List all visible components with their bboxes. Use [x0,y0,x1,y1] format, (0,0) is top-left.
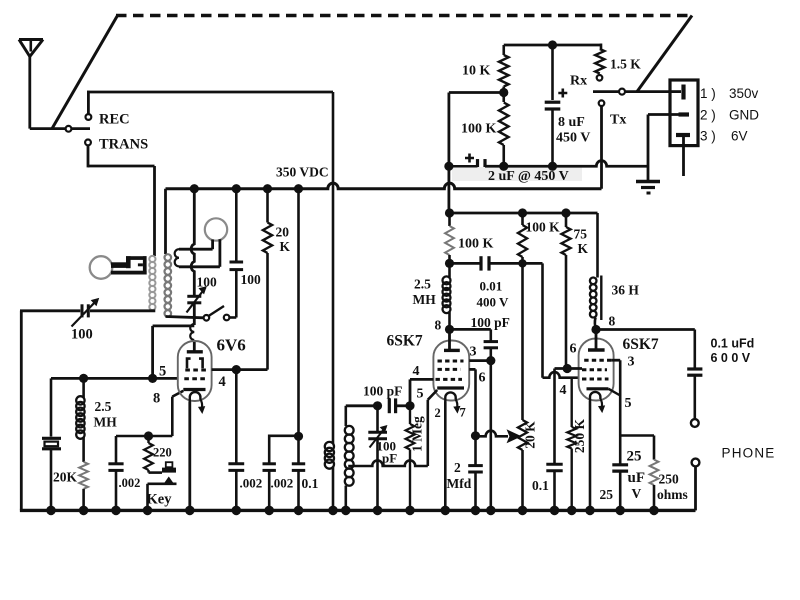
svg-text:8: 8 [609,314,616,329]
REC contact terminal [86,114,92,120]
node bus 490.8 [486,506,496,516]
wire B+ bus with hops [166,183,602,189]
wire cathode network [620,434,654,437]
svg-text:3: 3 [628,355,635,370]
wire 0.01 right lead [489,262,523,265]
svg-text:5: 5 [625,396,632,411]
node B+ second rail [445,208,454,217]
svg-text:0.1: 0.1 [532,478,549,493]
svg-text:2 uF @ 450 V: 2 uF @ 450 V [488,169,569,184]
svg-text:2: 2 [454,460,461,475]
svg-text:5: 5 [417,387,424,402]
Tx contact terminal [599,100,605,106]
6SK7-2 grid row 2 [582,368,607,371]
variable capacitor 100 antenna arrow [72,300,98,327]
svg-text:1.5 K: 1.5 K [610,57,641,72]
choke 36H [590,278,597,285]
wire pin6 6SK7-2 [555,367,583,370]
node bus 147.5 [143,506,153,516]
capacitor .002 key top lead [115,436,118,463]
wire TRANS to tank coil [153,166,156,256]
svg-text:4: 4 [413,364,420,379]
node 10K-100K junction [499,88,508,97]
transformer winding left [149,256,155,262]
6SK7-1 grid row 1 [438,360,464,363]
node bus 410 [405,506,415,516]
wire key to bus [146,484,149,511]
wire pin2 gnd [647,115,650,182]
node volume wiper [471,431,480,440]
wire choke to grid cap node [448,312,451,329]
node plate RC junction [445,259,454,268]
wire 0.1 column [297,189,300,437]
capacitor 25uF lead [619,436,622,464]
svg-text:Tx: Tx [610,113,626,128]
node B+ grid column [190,184,199,193]
chassis ground symbol [636,180,660,183]
svg-text:75: 75 [574,227,588,242]
choke 36H lead [596,213,599,278]
svg-text:4: 4 [219,374,226,390]
antenna switch pole terminal [66,126,72,132]
lamp wire lower [179,265,220,268]
resistor 250 ohms [650,460,659,485]
6SK7-2 top cap bar [588,348,605,351]
svg-text:350v: 350v [729,86,759,101]
node 2uF left [444,162,453,171]
node B+ 100pf column [232,184,241,193]
6SK7-2 grid row 3 [582,378,609,381]
svg-text:pF: pF [382,451,397,466]
node grid varcap rx [373,401,382,410]
svg-text:2.5: 2.5 [95,399,112,414]
wire filter column lower crossing bus [447,166,450,213]
wire 6SK7-2 heater to bus [589,401,592,510]
wire 20K to bus [82,489,85,511]
wire B+ top rail [504,44,601,47]
svg-text:36 H: 36 H [612,283,640,298]
svg-text:6: 6 [479,371,486,386]
wire cathode to junction [149,435,173,438]
lamp left lead [211,240,214,250]
wire TRANS down [87,145,90,167]
node bus 269.2 [264,506,274,516]
grid line from B+ with crossover hops [191,189,194,296]
capacitor .002 key [108,462,123,465]
wire 2uF left lead [449,165,478,168]
tube 6V6 envelope [178,341,212,401]
tank switch arm [209,306,225,316]
capacitor .002 screen A [228,462,244,465]
node 75K top [561,208,570,217]
resistor 10K [502,45,505,55]
wire phone lower to bus [694,466,697,510]
wire Tx down to B+ bus [600,106,603,189]
node cathode key junction [144,431,153,440]
node 1Meg top [405,401,414,410]
svg-text:2: 2 [435,406,441,420]
indicator lamp [205,218,227,240]
node 6SK7-1 top cap [445,325,454,334]
6V6 beam plates [187,359,191,369]
lamp right lead [218,239,221,267]
node bus 236.3 [232,506,242,516]
svg-text:2.5: 2.5 [414,277,431,292]
svg-text:Key: Key [147,492,173,508]
key contact bar [162,468,176,473]
node bus 654 [649,506,659,516]
lamp wire upper [179,248,213,251]
resistor 250K [571,378,573,427]
Rx contact terminal [597,75,603,81]
wire pin8 to 100pF [450,328,491,331]
lamp link coil loops [175,249,179,266]
svg-text:Rx: Rx [570,74,587,89]
connector block outline [670,80,698,146]
wire feedback branch [151,326,154,379]
capacitor .002 B top [269,436,298,463]
choke 2.5MH plate lead top [448,213,451,226]
rx tuned coil secondary [345,426,354,435]
node choke top [79,374,88,383]
node B+ 0.1 column [294,184,303,193]
node B+ screen 20K [263,184,272,193]
capacitor .002 key bottom lead [115,470,118,510]
wire filter column upper [447,93,450,167]
mechanical linkage diagonal left [52,16,118,129]
node bus 620.2 [615,506,625,516]
resistor 20K cathode [79,462,88,489]
svg-text:400 V: 400 V [477,295,510,310]
node bus 83.6 [79,506,89,516]
svg-text:100: 100 [241,272,262,287]
wire 6V6 screen pin4 [212,368,268,371]
wire .002A to bus [235,470,238,510]
variable capacitor 100 antenna [81,304,84,317]
capacitor 0.1uFd 600V [687,367,702,370]
capacitor .002 B [263,462,276,465]
svg-text:8: 8 [153,391,160,407]
capacitor 100 fixed lead top [235,189,238,261]
wire antenna tank left vertical [20,311,23,511]
svg-text:6V6: 6V6 [217,336,246,355]
6SK7-1 heater [445,392,455,401]
svg-text:PHONE: PHONE [722,446,776,461]
svg-text:8: 8 [435,318,442,333]
capacitor 0.01 400V [479,256,482,270]
wire .002B to bus [268,470,271,510]
svg-text:6SK7: 6SK7 [623,336,659,353]
wire REC up [87,91,90,115]
svg-text:ohms: ohms [657,487,688,502]
node pin6 75K [563,364,572,373]
wire 100K to node [448,255,451,263]
wire antenna varcap left [20,309,80,312]
resistor 100K audio [521,213,524,225]
grid squiggle loops [190,324,194,340]
capacitor 8uF 450V [545,101,561,104]
wire 100K audio rail [450,212,598,215]
svg-text:6 0 0 V: 6 0 0 V [711,351,751,365]
label 2uF [452,167,582,181]
6V6 grid row upper [185,369,208,372]
connector pin 2 [679,112,690,116]
crystal earphone [90,256,113,279]
6SK7-1 grid row 2 [438,368,461,371]
node 100K audio top [518,208,527,217]
mechanical linkage diagonal right [637,16,692,92]
variable capacitor 100pF rx arrow [370,427,387,448]
svg-text:K: K [578,241,589,256]
variable capacitor 100 grid [187,295,201,298]
svg-text:25: 25 [627,449,642,465]
choke 2.5MH cathode [76,396,84,404]
svg-text:100 K: 100 K [461,122,497,137]
wire output cap to terminal [693,375,696,419]
svg-text:100 K: 100 K [526,220,561,235]
svg-text:.002: .002 [271,476,294,491]
svg-text:.002: .002 [119,476,141,490]
svg-text:V: V [632,486,642,501]
wire right winding bottom to switch [166,317,204,318]
6SK7-2 heater arrow [600,399,602,407]
wire 6SK7-1 heater to bus [444,402,447,511]
node feedback [148,374,157,383]
6V6 plate bar [187,350,203,353]
wire antenna varcap right [90,309,155,312]
wire 250ohm to bus [653,485,656,510]
node 100K bottom [499,162,508,171]
variable capacitor 100pF rx [376,406,379,432]
6V6 cathode bar [183,388,205,391]
potentiometer 20K [521,263,524,420]
tube 6SK7-1 envelope [433,341,469,401]
resistor 1Meg [409,406,411,424]
plus sign 8uF [558,89,567,98]
svg-text:.002: .002 [240,476,263,491]
crystal Y1 [42,437,61,440]
wire antenna to switch pole [30,127,90,130]
svg-text:2 ): 2 ) [700,108,716,123]
transformer winding right [165,254,172,261]
wire 100pF to pin3 node [489,348,492,361]
wire junction to filter column [449,91,504,94]
wire secondary bottom to bus [344,486,347,511]
capacitor 100 fixed [230,261,244,264]
node 0.1 junction [294,432,303,441]
svg-text:100 K: 100 K [458,237,494,252]
wire ground rail [485,161,648,167]
node bus 189.8 [185,506,195,516]
node bus 333 [328,506,338,516]
wire 0.1B to bus [553,471,556,511]
earphone plug body [111,262,130,268]
node bus 554.5 [550,506,560,516]
capacitor 25uF [612,463,628,466]
svg-text:450 V: 450 V [556,131,590,146]
node bus 298.5 [294,506,304,516]
svg-text:8 uF: 8 uF [558,115,585,130]
svg-text:100 pF: 100 pF [363,384,402,399]
connector pin 1 [670,90,681,93]
svg-text:0.1: 0.1 [302,476,319,491]
svg-text:1 Meg: 1 Meg [410,416,425,452]
node pin4 bypass [232,365,241,374]
resistor 20K screen [266,189,269,223]
wire 25uF to bus [619,471,622,510]
node 8uF top [548,40,557,49]
capacitor 100pF feedback [484,340,498,343]
capacitor 8uF lead [551,45,554,100]
svg-text:250 K: 250 K [572,418,587,453]
node bus 345.8 [341,506,351,516]
wire 6V6 heater to bus [188,402,191,511]
svg-text:Mfd: Mfd [447,476,472,491]
svg-text:250: 250 [659,472,680,487]
node bus 377.5 [373,506,383,516]
svg-text:4: 4 [560,383,567,398]
wire 0.01 left lead [450,262,482,265]
resistor 1.5K [600,44,603,50]
node bus 51 [46,506,56,516]
svg-text:GND: GND [729,108,759,123]
svg-text:3: 3 [470,345,477,360]
capacitor 100 fixed lead bottom [235,270,238,318]
mechanical linkage dashed line [116,14,692,17]
node audio junction [518,259,526,267]
svg-text:25: 25 [600,487,614,502]
svg-text:100: 100 [71,327,93,343]
TR switch pole terminal [619,89,625,95]
svg-text:20: 20 [276,225,290,240]
svg-text:5: 5 [159,364,166,380]
key upper contact wire [147,470,149,473]
svg-text:350 VDC: 350 VDC [276,165,329,180]
tank switch right contact [224,315,230,321]
rx coupling coil primary [325,442,334,451]
node bus 445.3 [441,506,451,516]
tube 6SK7-2 envelope [579,339,614,401]
6V6 heater [190,392,201,402]
wire cathode to pin3 line [609,389,621,396]
wire pin4 bypass down [235,370,238,463]
svg-text:1 ): 1 ) [700,86,716,101]
variable capacitor 100 arrow [187,288,206,313]
choke 2.5MH plate [448,263,451,277]
svg-text:3 ): 3 ) [700,129,716,144]
wire pin3 6SK7-1 [469,359,491,362]
wire B+ bus left end down to tank coil [164,189,167,254]
node 8uF bottom [548,162,557,171]
svg-text:7: 7 [460,406,466,420]
wire pin5 cathode 6SK7-1 [428,390,437,400]
6SK7-1 heater arrow [456,400,458,408]
key arrow [164,478,173,484]
wire crystal top [50,378,53,436]
6SK7-2 cathode bar [587,387,609,390]
wire secondary top [344,406,347,426]
choke 2.5MH cathode lead [82,378,85,397]
wire antenna lead down [28,55,31,129]
resistor 75K [565,213,568,227]
svg-text:20K: 20K [53,470,78,485]
node bus 590 [585,506,595,516]
capacitor 0.1 A [292,462,305,465]
phone terminal upper [691,419,699,427]
wire pin6 6SK7-1 [469,368,475,371]
wire pin6 bypass [553,369,556,464]
svg-text:0.1 uFd: 0.1 uFd [711,337,755,351]
wire pin3 6SK7-2 [612,359,621,362]
TR switch arm wire [593,90,671,93]
connector pin 3 [676,133,690,137]
capacitor 2uF 450V [476,159,479,173]
svg-text:100 pF: 100 pF [471,315,510,330]
resistor 100K bleeder [499,103,509,146]
svg-text:MH: MH [413,292,437,307]
svg-text:6V: 6V [731,129,748,144]
6SK7-2 grid row 1 [584,359,611,362]
svg-text:220: 220 [153,446,172,460]
wire pin3 to bus [489,361,492,511]
TRANS contact terminal [85,140,91,146]
capacitor 8uF bottom lead [551,109,554,166]
node 6SK7-2 top cap [591,325,600,334]
node bus 116 [111,506,121,516]
svg-text:20 K: 20 K [523,421,538,449]
wire crystal bottom [50,449,53,511]
svg-text:uF: uF [628,470,646,486]
node bus 475.5 [471,506,481,516]
wire choke to 20K [82,438,85,462]
antenna symbol [19,38,43,41]
wire grid leak rail [51,377,178,380]
6SK7-1 cathode bar [437,386,464,389]
wire 100 cap to switch contact [229,316,236,319]
wire 0.1 top lead [297,436,300,463]
phone terminal lower [692,459,700,467]
node pin3 100pF [486,356,495,365]
wiper arrow [498,435,508,438]
6SK7-1 top cap bar [444,349,460,352]
svg-text:100: 100 [197,275,218,290]
wire squiggle to 6V6 plate [193,340,196,352]
wire TRANS horizontal [88,165,155,168]
wire pin4 6SK7-1 [410,378,433,381]
wiper wire with hop [476,431,499,437]
6V6 grid row lower [184,377,207,380]
svg-text:MH: MH [94,415,118,430]
key lower contact wire [148,482,177,485]
wire 100pF to 1Meg node [396,404,410,407]
wire REC to receiver input [87,91,333,94]
6SK7-1 grid row 3 [436,378,463,381]
wire grid return with hops [348,460,428,466]
wire varcap rx to bus [376,439,379,511]
capacitor 2uF plus sign [465,154,474,163]
wire pin8 to output cap [596,328,695,331]
svg-text:0.01: 0.01 [480,279,503,294]
node bus 522.5 [518,506,528,516]
capacitor 100pF grid fixed [388,398,391,413]
resistor 100K plate [445,226,454,255]
wire REC line down [332,92,335,444]
svg-text:K: K [280,239,291,254]
wire 0.1A to bus [297,470,300,510]
capacitor 2Mfd [474,436,477,465]
wire primary to bus [332,467,335,510]
wire audio to output grid [523,262,543,265]
